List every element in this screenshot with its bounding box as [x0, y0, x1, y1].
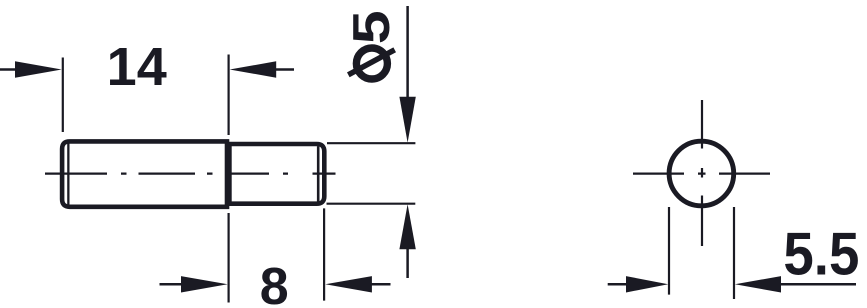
- svg-text:8: 8: [260, 258, 289, 308]
- node arrow 8 right: [325, 276, 372, 292]
- wire dimension 14 tail right: [274, 68, 294, 71]
- wire d5 tail bottom: [406, 247, 409, 278]
- wire dimension 14 tail left: [0, 68, 17, 71]
- node arrow 14 left: [15, 61, 62, 77]
- wire centerline pin: [45, 173, 336, 175]
- node arrow 5.5 right: [735, 276, 781, 292]
- svg-text:5: 5: [343, 10, 401, 44]
- node arrow d5 down: [399, 97, 415, 143]
- node pin body large cylinder: [62, 141, 227, 206]
- svg-text:5.5: 5.5: [783, 220, 859, 288]
- wire dimension 8 tail right: [370, 283, 391, 286]
- wire extension line 8 right: [323, 208, 325, 300]
- wire dimension 8 tail left: [160, 283, 183, 286]
- wire chamfer line left: [67, 144, 69, 205]
- wire dimension 5.5 tail right: [779, 283, 856, 286]
- node arrow 8 left: [181, 276, 228, 292]
- node arrow 5.5 left: [626, 276, 668, 292]
- node arrow d5 up: [399, 204, 415, 249]
- wire extension line 5.5 right: [733, 207, 735, 299]
- wire extension line 14 left: [62, 58, 64, 133]
- node label diameter symbol circle: [356, 48, 387, 79]
- wire centerline horizontal: [633, 173, 770, 175]
- svg-text:14: 14: [107, 37, 167, 97]
- node end view circle: [669, 141, 734, 206]
- wire extension line d5 bottom: [327, 203, 416, 205]
- node pin body small cylinder: [229, 144, 324, 204]
- wire extension line 8 left: [228, 213, 230, 303]
- wire d5 tail top: [406, 6, 409, 98]
- wire chamfer line right: [317, 146, 320, 201]
- node arrow 14 right: [230, 61, 277, 77]
- wire extension line d5 top: [327, 142, 415, 144]
- wire extension line 5.5 left: [668, 207, 670, 295]
- wire centerline vertical: [701, 100, 703, 246]
- wire dimension 5.5 tail left: [608, 283, 628, 286]
- node label diameter symbol slash: [348, 50, 394, 75]
- wire extension line 14 right: [228, 55, 230, 136]
